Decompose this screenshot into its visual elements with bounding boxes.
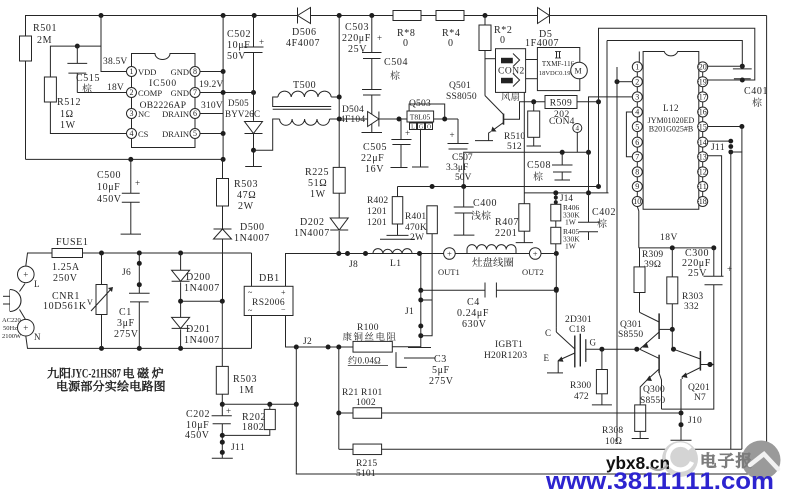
svg-text:310V: 310V bbox=[201, 101, 223, 111]
svg-text:1W: 1W bbox=[565, 242, 577, 251]
svg-text:CS: CS bbox=[138, 129, 149, 139]
L12 pin 3 bbox=[632, 92, 642, 102]
svg-text:S8550: S8550 bbox=[618, 330, 643, 340]
svg-text:0.04Ω: 0.04Ω bbox=[358, 356, 382, 366]
wire pin19 bbox=[708, 79, 743, 81]
svg-text:220μF: 220μF bbox=[342, 33, 371, 44]
svg-text:450V: 450V bbox=[185, 430, 210, 441]
svg-text:3.3μF: 3.3μF bbox=[446, 163, 468, 173]
svg-text:25V: 25V bbox=[348, 44, 367, 55]
svg-text:C508: C508 bbox=[527, 160, 551, 171]
svg-text:18V: 18V bbox=[660, 233, 678, 243]
svg-text:1802: 1802 bbox=[242, 422, 264, 433]
svg-text:O: O bbox=[427, 125, 432, 131]
svg-text:+: + bbox=[259, 37, 264, 47]
svg-text:COMP: COMP bbox=[138, 88, 162, 98]
svg-text:C3: C3 bbox=[434, 354, 447, 365]
IC L12 JYM01020ED body bbox=[643, 52, 699, 210]
svg-text:2D301: 2D301 bbox=[565, 315, 592, 325]
svg-text:10μF: 10μF bbox=[227, 40, 250, 51]
IC500 pin 4 CS bbox=[127, 129, 137, 139]
svg-text:CON4: CON4 bbox=[549, 117, 575, 127]
svg-text:1: 1 bbox=[635, 63, 639, 72]
fuse FUSE1 bbox=[52, 249, 83, 258]
connector CON2 bbox=[496, 49, 526, 93]
svg-text:470K: 470K bbox=[405, 223, 427, 233]
jumper J11 pins bbox=[708, 140, 731, 142]
wire pin15 to R215 riser bbox=[708, 126, 742, 128]
wire lower bus bbox=[26, 158, 224, 160]
svg-text:39Ω: 39Ω bbox=[644, 260, 661, 270]
resistor R402 bbox=[397, 187, 399, 197]
capacitor C400 bbox=[463, 187, 465, 208]
svg-text:~: ~ bbox=[248, 306, 253, 315]
svg-text:50V: 50V bbox=[227, 51, 246, 62]
svg-text:7: 7 bbox=[635, 152, 639, 161]
svg-text:D200: D200 bbox=[186, 272, 211, 283]
wire VDD riser bbox=[101, 16, 126, 72]
L12 pin 18 bbox=[698, 197, 708, 207]
svg-text:C402: C402 bbox=[592, 207, 616, 218]
svg-text:17: 17 bbox=[699, 93, 707, 102]
svg-text:19.2V: 19.2V bbox=[199, 80, 224, 90]
svg-text:C202: C202 bbox=[186, 409, 210, 420]
wire D200-D201 mid to R503 bbox=[181, 300, 223, 302]
svg-text:630V: 630V bbox=[462, 319, 487, 330]
resistor R202 bbox=[269, 404, 271, 409]
L12 pin 15 bbox=[698, 122, 708, 132]
svg-text:J11: J11 bbox=[231, 443, 245, 453]
svg-text:D504: D504 bbox=[342, 105, 364, 115]
svg-text:275V: 275V bbox=[429, 376, 454, 387]
svg-text:CON2: CON2 bbox=[498, 67, 525, 77]
AC plug symbol bbox=[18, 266, 35, 283]
svg-text:1W: 1W bbox=[565, 218, 577, 227]
wire GND bus right of IC500 bbox=[222, 16, 224, 160]
svg-text:R510: R510 bbox=[504, 132, 525, 142]
svg-text:R303: R303 bbox=[682, 292, 703, 302]
capacitor C401 bbox=[740, 64, 745, 69]
svg-text:OUT1: OUT1 bbox=[438, 267, 460, 277]
svg-text:C401: C401 bbox=[744, 86, 768, 97]
svg-text:+: + bbox=[281, 288, 286, 297]
capacitor C202 bbox=[212, 415, 232, 417]
jumper J11 bottom bbox=[220, 433, 225, 438]
varistor CNR1 bbox=[101, 253, 103, 285]
svg-text:C4: C4 bbox=[467, 297, 480, 308]
IGBT symbol H20R1203 bbox=[555, 327, 557, 332]
svg-text:R509: R509 bbox=[550, 99, 573, 109]
resistor R225 bbox=[333, 167, 345, 193]
diode D200 bbox=[180, 253, 182, 270]
svg-text:+: + bbox=[447, 249, 452, 259]
IC500 pin 7 GND bbox=[190, 88, 200, 98]
svg-text:E: E bbox=[544, 353, 550, 363]
svg-text:+: + bbox=[377, 33, 382, 43]
L12 pin 10 bbox=[632, 197, 642, 207]
svg-text:0: 0 bbox=[500, 35, 506, 46]
L12 pin 9 bbox=[632, 182, 642, 192]
L12 pin 12 bbox=[698, 167, 708, 177]
svg-text:T8L05: T8L05 bbox=[410, 113, 431, 122]
svg-text:+: + bbox=[226, 406, 231, 416]
resistor R303 bbox=[671, 248, 673, 277]
capacitor C502 bbox=[253, 16, 255, 48]
svg-text:−: − bbox=[281, 305, 286, 314]
L12 pin 16 bbox=[698, 107, 708, 117]
svg-text:GND: GND bbox=[171, 88, 189, 98]
wire J14 row bbox=[524, 192, 608, 194]
capacitor C505 bbox=[400, 119, 402, 140]
svg-text:13: 13 bbox=[699, 152, 707, 161]
wire Q503 G pin ground bbox=[420, 130, 422, 168]
svg-text:J14: J14 bbox=[560, 193, 573, 203]
svg-text:1Ω: 1Ω bbox=[60, 109, 74, 120]
svg-text:512: 512 bbox=[507, 142, 522, 152]
label title line2 bbox=[58, 380, 68, 391]
svg-text:R225: R225 bbox=[305, 167, 329, 178]
svg-text:D500: D500 bbox=[240, 222, 265, 233]
wire pin13 down bbox=[708, 156, 722, 277]
svg-text:GND: GND bbox=[171, 67, 189, 77]
wire DB1 - to J2 bbox=[286, 316, 354, 348]
resistor R501 bbox=[20, 36, 32, 61]
wire loop to J14 bbox=[606, 41, 608, 193]
resistor R512 bbox=[44, 77, 56, 102]
svg-text:10: 10 bbox=[633, 197, 641, 206]
IC500 pin 8 GND bbox=[190, 67, 200, 77]
fan motor M box bbox=[537, 48, 579, 91]
svg-text:N7: N7 bbox=[694, 393, 706, 403]
resistor R509 bbox=[545, 96, 577, 109]
svg-text:L: L bbox=[34, 279, 40, 289]
wire AC neutral rail bbox=[26, 336, 252, 348]
svg-text:L12: L12 bbox=[663, 103, 679, 113]
svg-text:NC: NC bbox=[138, 109, 150, 119]
svg-text:0: 0 bbox=[403, 38, 409, 49]
wire Q503 loop bbox=[409, 104, 445, 119]
svg-text:DRAIN: DRAIN bbox=[162, 109, 189, 119]
L12 pin 17 bbox=[698, 92, 708, 102]
svg-text:C500: C500 bbox=[97, 170, 121, 181]
svg-text:18: 18 bbox=[699, 197, 707, 206]
svg-text:1W: 1W bbox=[60, 120, 76, 131]
wire J2 riser to bottom bbox=[295, 347, 297, 473]
wire mid vertical bus x339 bbox=[338, 16, 340, 168]
svg-text:11: 11 bbox=[699, 182, 707, 191]
svg-text:16: 16 bbox=[699, 108, 707, 117]
wire pin2 to long vertical bbox=[617, 81, 632, 83]
watermark circle large bbox=[742, 441, 781, 480]
capacitor C508 bbox=[561, 152, 563, 165]
diode D5 bbox=[538, 8, 550, 24]
capacitor C300 bbox=[713, 248, 715, 276]
wire pin20 bbox=[708, 65, 743, 67]
svg-text:8: 8 bbox=[193, 67, 197, 76]
diode D505 bbox=[245, 122, 263, 134]
svg-text:+: + bbox=[23, 323, 28, 333]
svg-text:1N4007: 1N4007 bbox=[184, 335, 220, 346]
diode D506 bbox=[297, 8, 299, 24]
svg-text:1002: 1002 bbox=[356, 398, 376, 408]
svg-text:0: 0 bbox=[448, 38, 454, 49]
wire IGBT collector riser bbox=[555, 254, 557, 328]
L12 pin 14 bbox=[698, 137, 708, 147]
svg-text:+: + bbox=[405, 128, 410, 138]
svg-text:C505: C505 bbox=[363, 142, 387, 153]
svg-text:4: 4 bbox=[130, 129, 134, 138]
IC500 pin 6 DRAIN bbox=[190, 109, 200, 119]
L12 pin 2 bbox=[632, 77, 642, 87]
svg-text:15: 15 bbox=[699, 122, 707, 131]
wire R101 row bbox=[338, 347, 340, 449]
svg-text:+: + bbox=[450, 130, 455, 140]
diode D500 bbox=[222, 206, 224, 229]
wire top rail bbox=[26, 16, 767, 160]
svg-text:2M: 2M bbox=[37, 35, 52, 46]
svg-text:D202: D202 bbox=[300, 217, 325, 228]
svg-text:D505: D505 bbox=[228, 98, 249, 108]
resistor R503 47 bbox=[217, 179, 229, 207]
svg-text:250V: 250V bbox=[53, 273, 78, 284]
capacitor C503 bbox=[371, 16, 373, 53]
wire DB1 + to L1 rail bbox=[286, 254, 557, 287]
svg-text:C400: C400 bbox=[473, 198, 497, 209]
wire C300 bottom to Q300 emitter bbox=[662, 285, 714, 409]
L12 pin 6 bbox=[632, 137, 642, 147]
L12 pin 8 bbox=[632, 167, 642, 177]
svg-text:FUSE1: FUSE1 bbox=[56, 237, 88, 248]
diode D202 bbox=[338, 193, 340, 218]
svg-text:BYV26C: BYV26C bbox=[225, 109, 260, 119]
svg-text:+: + bbox=[533, 249, 538, 259]
svg-text:C502: C502 bbox=[227, 29, 251, 40]
svg-text:R308: R308 bbox=[602, 426, 623, 436]
svg-text:L: L bbox=[411, 125, 415, 131]
svg-text:Q201: Q201 bbox=[688, 383, 710, 393]
svg-text:22μF: 22μF bbox=[361, 153, 384, 164]
svg-text:J8: J8 bbox=[349, 260, 358, 270]
L12 pin 13 bbox=[698, 152, 708, 162]
wire R512 top bbox=[50, 46, 101, 77]
svg-text:5: 5 bbox=[193, 129, 197, 138]
svg-text:4F4007: 4F4007 bbox=[286, 38, 320, 49]
svg-text:T500: T500 bbox=[293, 80, 316, 91]
svg-text:1201: 1201 bbox=[367, 218, 387, 228]
svg-text:10Ω: 10Ω bbox=[605, 437, 622, 447]
svg-text:+: + bbox=[23, 270, 28, 280]
IC500 pin 5 DRAIN bbox=[190, 129, 200, 139]
wire R509 vertical down bbox=[598, 102, 600, 187]
svg-text:R501: R501 bbox=[33, 23, 57, 34]
svg-text:275V: 275V bbox=[114, 329, 139, 340]
svg-text:7: 7 bbox=[193, 88, 197, 97]
resistor R300 bbox=[601, 349, 603, 369]
svg-text:+: + bbox=[727, 264, 732, 274]
svg-text:JYC-21HS87: JYC-21HS87 bbox=[71, 367, 121, 381]
svg-text:5: 5 bbox=[635, 122, 639, 131]
svg-text:M: M bbox=[574, 67, 581, 76]
svg-text:51Ω: 51Ω bbox=[308, 178, 327, 189]
L12 pin 11 bbox=[698, 182, 708, 192]
svg-text:J10: J10 bbox=[688, 416, 702, 426]
svg-text:G: G bbox=[590, 338, 597, 348]
svg-text:332: 332 bbox=[684, 302, 699, 312]
svg-text:C504: C504 bbox=[384, 57, 408, 68]
svg-text:AC220: AC220 bbox=[2, 317, 21, 324]
svg-text:C: C bbox=[545, 328, 551, 338]
svg-text:3: 3 bbox=[130, 109, 134, 118]
svg-text:1N4007: 1N4007 bbox=[234, 233, 270, 244]
wire bottom long rail bbox=[296, 473, 766, 474]
svg-text:14: 14 bbox=[699, 138, 707, 147]
svg-text:10D561K: 10D561K bbox=[43, 301, 87, 312]
resistor R*4 bbox=[436, 11, 464, 21]
svg-text:472: 472 bbox=[574, 392, 589, 402]
svg-text:1201: 1201 bbox=[367, 207, 387, 217]
L12 pin 5 bbox=[632, 122, 642, 132]
wire 18V rail bbox=[639, 247, 714, 249]
svg-text:R21 R101: R21 R101 bbox=[342, 388, 382, 398]
capacitor C3 bbox=[408, 347, 431, 349]
svg-text:OUT2: OUT2 bbox=[522, 267, 544, 277]
svg-text:R503: R503 bbox=[233, 374, 257, 385]
svg-text:18V: 18V bbox=[107, 83, 124, 93]
svg-text:DB1: DB1 bbox=[259, 273, 280, 284]
watermark circle swirl bbox=[662, 441, 698, 477]
resistor R407 bbox=[523, 92, 525, 203]
svg-text:TXMF-116: TXMF-116 bbox=[542, 60, 575, 68]
svg-text:L1: L1 bbox=[390, 259, 402, 269]
svg-text:5μF: 5μF bbox=[432, 365, 450, 376]
diode D201 bbox=[180, 301, 182, 317]
wire line A J1 bbox=[420, 254, 422, 348]
svg-text:G: G bbox=[419, 125, 424, 131]
wire C4 row bbox=[421, 289, 485, 291]
resistor R405 bbox=[555, 221, 557, 227]
resistor R309 bbox=[638, 248, 641, 267]
wire CS from R512 bbox=[50, 102, 126, 134]
wire AC live rail bbox=[26, 253, 52, 266]
svg-text:J2: J2 bbox=[303, 337, 312, 347]
wire divider rail y186.5 bbox=[398, 186, 599, 188]
svg-text:C1: C1 bbox=[119, 307, 132, 318]
svg-text:VDD: VDD bbox=[138, 67, 156, 77]
svg-text:5101: 5101 bbox=[356, 469, 376, 479]
wire DB1 left pins bbox=[251, 253, 253, 286]
IC500 pin 2 COMP bbox=[127, 88, 137, 98]
svg-text:38.5V: 38.5V bbox=[103, 57, 128, 67]
svg-text:B201G025#B: B201G025#B bbox=[649, 125, 693, 134]
IC500 pin 3 NC bbox=[127, 109, 137, 119]
inductor L1 bbox=[373, 249, 412, 254]
wire COMP 18V bbox=[77, 92, 126, 94]
watermark text 电子报 bbox=[702, 453, 716, 468]
resistor R308 bbox=[640, 380, 647, 405]
svg-text:50Hz: 50Hz bbox=[3, 325, 17, 332]
svg-text:R100: R100 bbox=[357, 323, 379, 333]
svg-text:25V: 25V bbox=[688, 268, 707, 279]
svg-text:1N4007: 1N4007 bbox=[294, 228, 330, 239]
capacitor C4 bbox=[484, 283, 486, 298]
svg-text:9: 9 bbox=[635, 182, 639, 191]
svg-text:0.24μF: 0.24μF bbox=[457, 308, 489, 319]
IC500 pin 1 VDD bbox=[127, 67, 137, 77]
svg-text:3μF: 3μF bbox=[117, 318, 135, 329]
svg-text:4: 4 bbox=[635, 108, 639, 117]
svg-text:C18: C18 bbox=[569, 325, 585, 335]
svg-text:2W: 2W bbox=[238, 201, 254, 212]
wire pin1 stub bbox=[638, 52, 640, 62]
svg-text:www.3811111.com: www.3811111.com bbox=[545, 468, 774, 494]
resistor R*2 bbox=[479, 25, 491, 51]
wire Q501 base to R509 bbox=[504, 102, 599, 119]
L12 pin 20 bbox=[698, 62, 708, 72]
svg-text:IGBT1: IGBT1 bbox=[495, 340, 523, 350]
svg-text:V: V bbox=[87, 298, 93, 307]
svg-text:R503: R503 bbox=[234, 179, 258, 190]
wire top rail right edge down bbox=[766, 16, 768, 475]
svg-text:450V: 450V bbox=[97, 194, 122, 205]
L12 pin 19 bbox=[698, 77, 708, 87]
L12 pin 1 bbox=[632, 62, 642, 72]
svg-text:C515: C515 bbox=[76, 73, 100, 84]
svg-text:2: 2 bbox=[635, 77, 639, 86]
svg-text:1: 1 bbox=[130, 67, 134, 76]
svg-text:C503: C503 bbox=[345, 22, 369, 33]
svg-text:SS8050: SS8050 bbox=[446, 92, 477, 102]
svg-text:J11: J11 bbox=[711, 143, 725, 153]
op-amp IC500 OB2226AP body bbox=[132, 54, 196, 148]
wire J1 stub bbox=[421, 299, 432, 301]
svg-text:C507: C507 bbox=[452, 153, 473, 163]
capacitor C504 bbox=[362, 89, 382, 91]
node top rail junctions bbox=[99, 13, 104, 18]
wire long vertical x617 bbox=[616, 82, 618, 442]
svg-text:2: 2 bbox=[130, 88, 134, 97]
svg-text:6: 6 bbox=[635, 138, 639, 147]
svg-text:4: 4 bbox=[576, 125, 580, 133]
svg-text:R402: R402 bbox=[367, 196, 388, 206]
resistor R100 shunt bbox=[353, 341, 392, 352]
svg-text:N: N bbox=[34, 332, 41, 342]
capacitor C515 bbox=[76, 46, 78, 63]
L12 pin 7 bbox=[632, 152, 642, 162]
svg-text:~: ~ bbox=[248, 288, 253, 297]
svg-text:20: 20 bbox=[699, 63, 707, 72]
svg-text:J6: J6 bbox=[122, 268, 131, 278]
IC500 pin stubs bbox=[131, 77, 133, 88]
label fan 风扇 bbox=[501, 92, 510, 101]
resistor R510 bbox=[533, 102, 535, 111]
svg-text:R215: R215 bbox=[356, 459, 377, 469]
wire C507-C508-J14 link bbox=[464, 152, 589, 186]
wire CON2 to L12 pin19 loop bbox=[599, 28, 755, 102]
svg-text:2W: 2W bbox=[410, 233, 424, 243]
svg-text:2201: 2201 bbox=[495, 228, 517, 239]
svg-text:J1: J1 bbox=[405, 307, 414, 317]
svg-text:1W: 1W bbox=[310, 189, 326, 200]
svg-text:18VDC0.19A: 18VDC0.19A bbox=[539, 70, 576, 77]
svg-text:R309: R309 bbox=[642, 250, 663, 260]
svg-text:DRAIN: DRAIN bbox=[162, 129, 189, 139]
wire J11 vertical down bbox=[730, 152, 732, 449]
svg-text:R300: R300 bbox=[570, 381, 591, 391]
resistor R*8 bbox=[393, 11, 421, 21]
capacitor C500 bbox=[130, 159, 132, 193]
svg-text:16V: 16V bbox=[365, 164, 384, 175]
svg-text:8: 8 bbox=[635, 168, 639, 177]
